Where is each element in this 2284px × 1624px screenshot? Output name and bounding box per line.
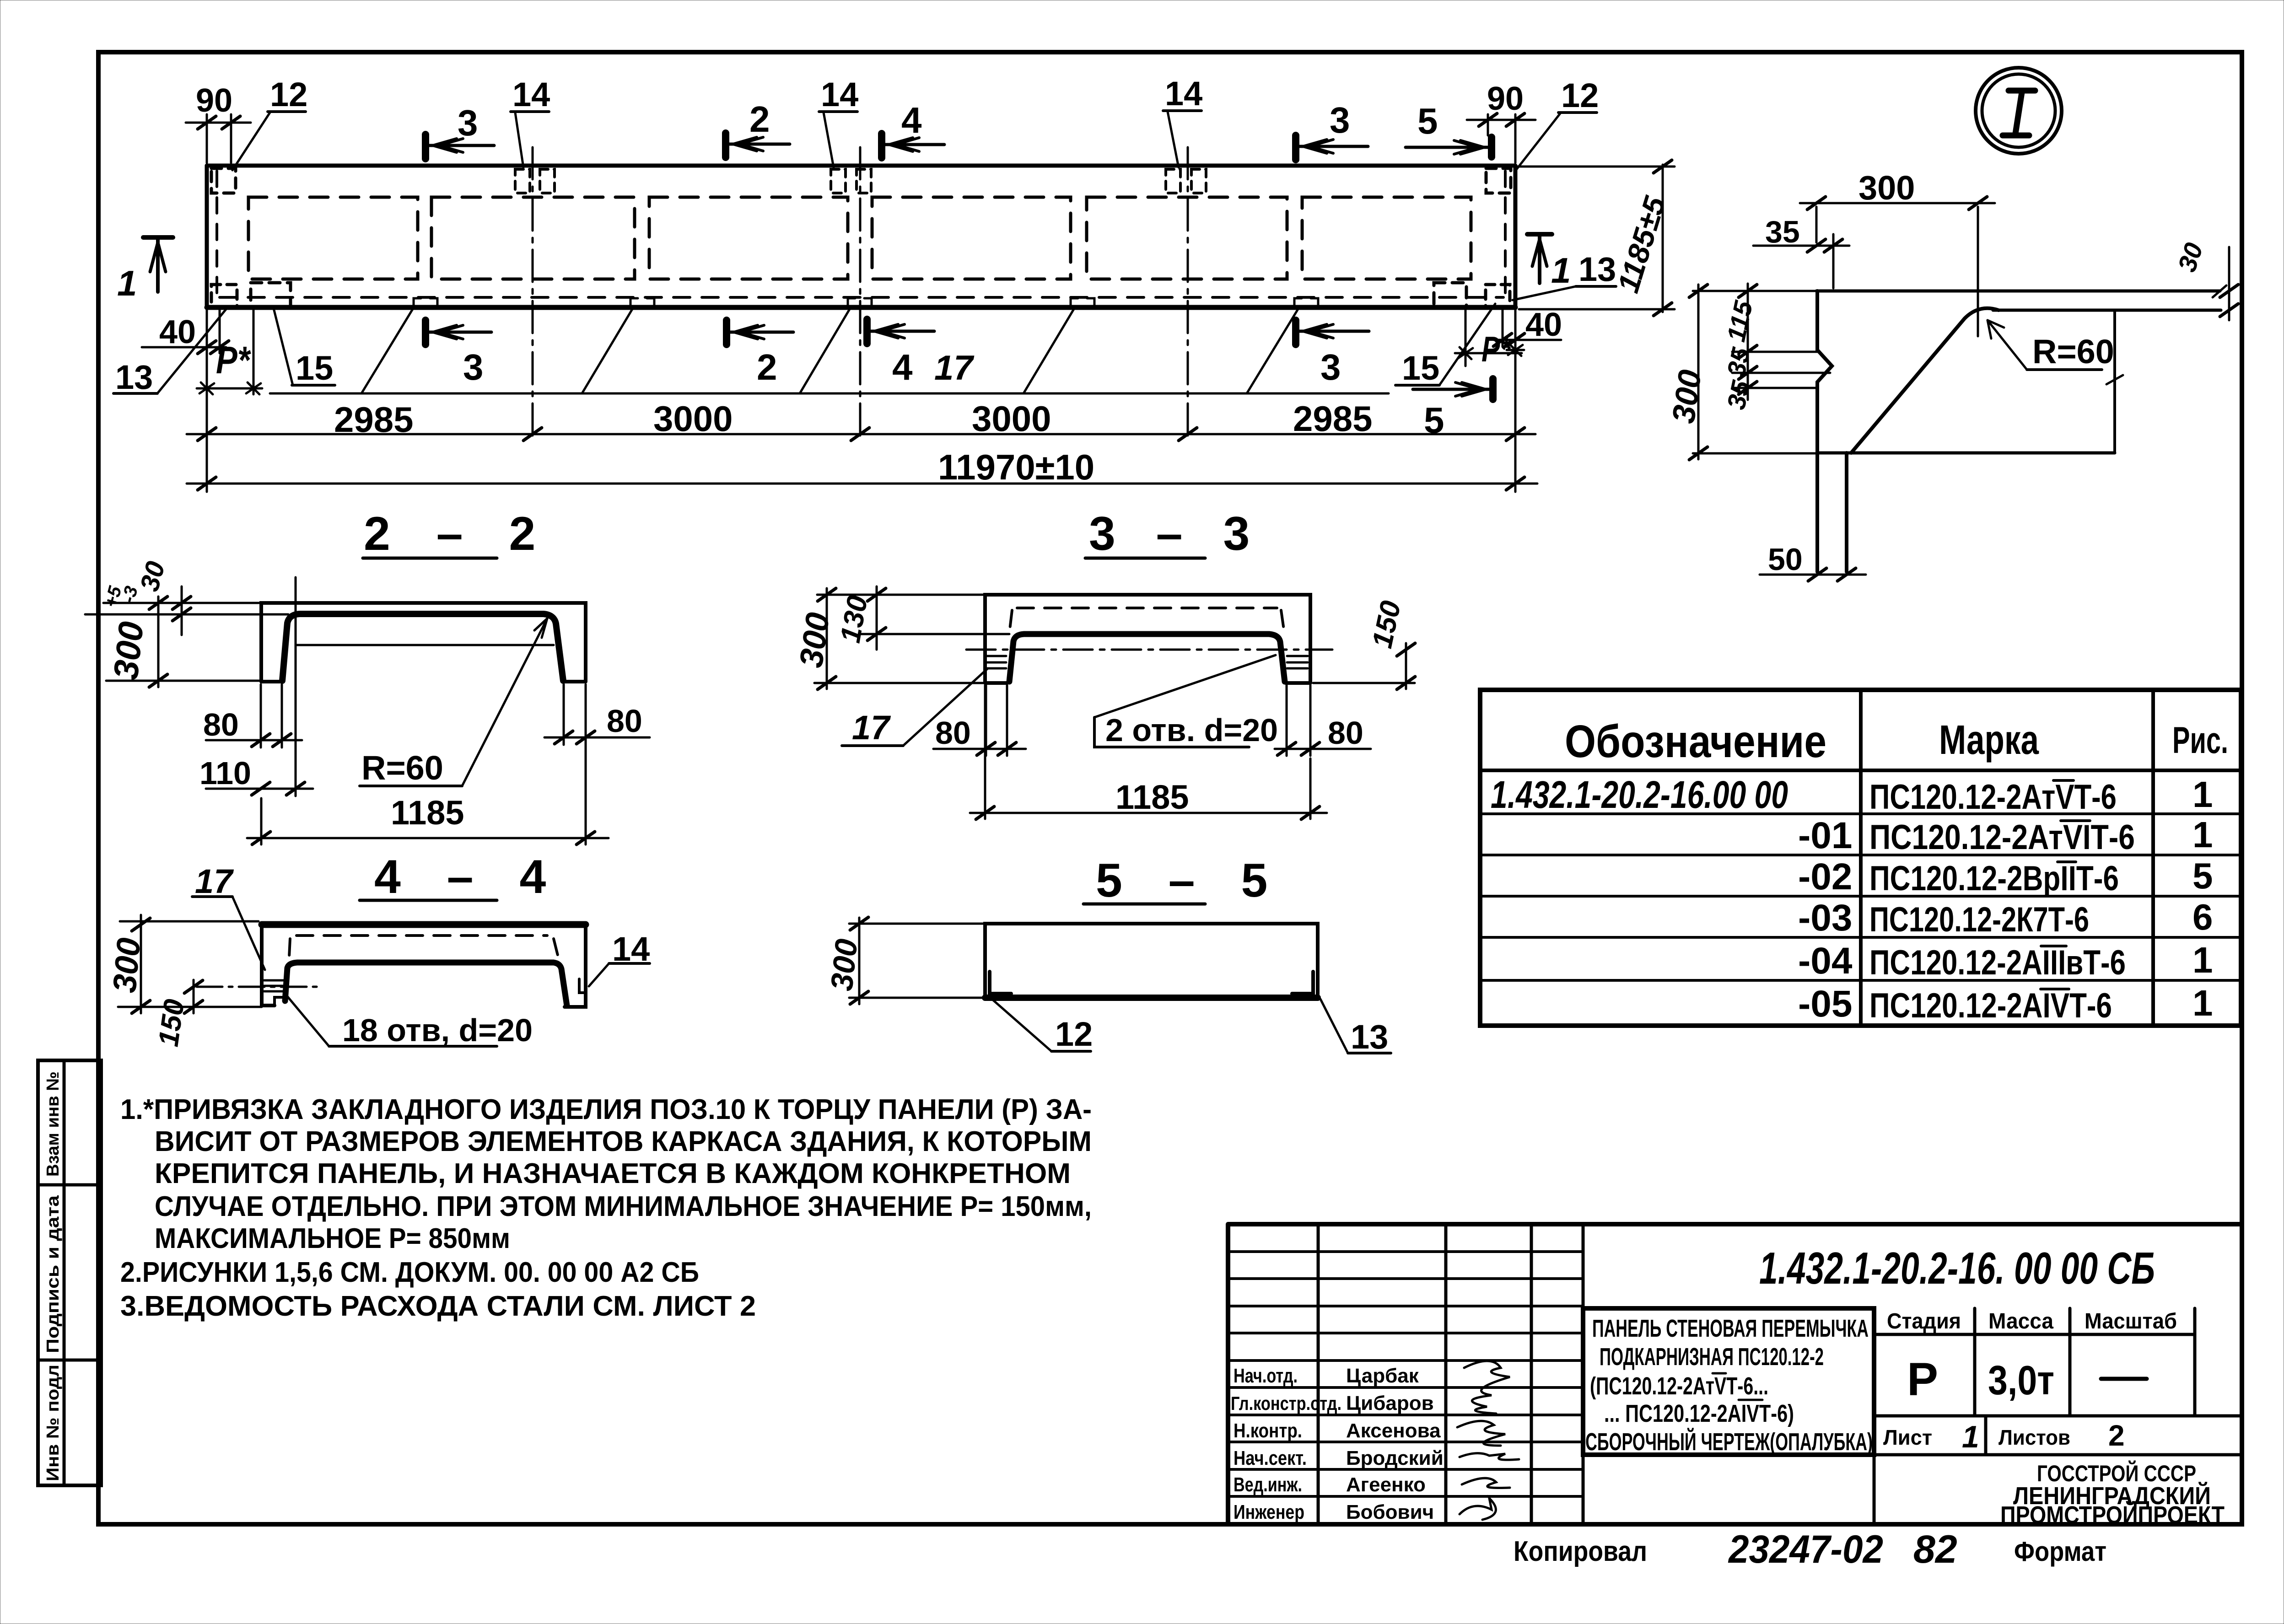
svg-text:R=60: R=60	[361, 749, 443, 787]
section 5-5 corner angle 13	[1292, 972, 1313, 994]
section 2-2 dim 80 right	[544, 684, 650, 745]
section 3-3 label 17	[842, 669, 987, 747]
panel outline right edge	[1514, 166, 1518, 307]
section 2-2 projection line	[295, 577, 297, 769]
opening 3 dashed	[649, 197, 848, 279]
embedded plate 13 bottom-right dashed square	[1486, 285, 1510, 307]
dim 40 left	[142, 309, 229, 354]
svg-text:23247-02: 23247-02	[1728, 1527, 1883, 1571]
svg-text:3: 3	[1330, 100, 1350, 140]
svg-text:80: 80	[935, 715, 971, 751]
svg-text:14: 14	[512, 75, 550, 113]
svg-text:12: 12	[1561, 76, 1599, 114]
section 5-5 corner angle 12	[990, 972, 1011, 994]
svg-text:13: 13	[1351, 1018, 1388, 1056]
detail dim 35 top	[1753, 215, 1849, 288]
title block outline	[1228, 1224, 2242, 1524]
section arrow 4 bottom	[867, 319, 934, 387]
stamp divider row 2	[38, 1359, 101, 1362]
inner dashed line left rim	[215, 171, 218, 303]
svg-text:Цибаров: Цибаров	[1346, 1392, 1434, 1414]
svg-text:Нач.сект.: Нач.сект.	[1234, 1447, 1307, 1469]
embedded plate 15 bottom-left dashed square	[251, 283, 291, 307]
value dash	[2101, 1377, 2147, 1381]
section arrow 3 bottom	[426, 320, 491, 387]
svg-text:1: 1	[1962, 1420, 1979, 1454]
section arrow 3 top right	[1296, 100, 1368, 160]
svg-text:2: 2	[2108, 1419, 2125, 1452]
view arrow 1 right	[1527, 234, 1571, 290]
section 2-2 dim 1185	[247, 684, 609, 844]
section arrow 3 top	[426, 102, 494, 159]
svg-text:80: 80	[607, 703, 642, 739]
table row lines	[1480, 814, 2241, 980]
svg-text:Стадия: Стадия	[1887, 1309, 1961, 1334]
svg-text:2985: 2985	[1293, 398, 1373, 439]
detail top surface line	[1816, 290, 2220, 293]
svg-text:ПС120.12-2АтVIТ-6: ПС120.12-2АтVIТ-6	[1869, 818, 2135, 857]
svg-text:5: 5	[2192, 855, 2213, 896]
section arrow 4 top	[882, 100, 944, 158]
svg-text:50: 50	[1768, 542, 1803, 577]
section 3-3 dim 150 right	[1313, 598, 1415, 689]
section 3-3 hole axis line	[966, 649, 1332, 651]
section 5-5 outline	[985, 924, 1318, 998]
section arrow 3 bottom right	[1296, 320, 1369, 387]
svg-text:2.РИСУНКИ 1,5,6 СМ. ДОКУМ. 00: 2.РИСУНКИ 1,5,6 СМ. ДОКУМ. 00. 00 00 А2 …	[120, 1257, 699, 1288]
label 13 left	[113, 309, 226, 396]
extension line panel right edge down	[1514, 309, 1517, 492]
svg-text:110: 110	[199, 755, 251, 791]
svg-text:2 отв. d=20: 2 отв. d=20	[1105, 712, 1278, 748]
section 4-4 label 17	[192, 862, 265, 970]
panel outline top edge	[207, 164, 1515, 168]
svg-text:(ПС120.12-2АтVТ-6...: (ПС120.12-2АтVТ-6...	[1590, 1372, 1768, 1400]
opening 5 dashed	[1087, 197, 1287, 279]
svg-text:Н.контр.: Н.контр.	[1234, 1420, 1302, 1442]
label 15 left	[274, 308, 335, 387]
svg-text:СЛУЧАЕ ОТДЕЛЬНО. ПРИ ЭТОМ МИН: СЛУЧАЕ ОТДЕЛЬНО. ПРИ ЭТОМ МИНИМАЛЬНОЕ ЗН…	[155, 1191, 1092, 1222]
table row 3 mark	[1869, 859, 2119, 898]
svg-text:5 – 5: 5 – 5	[1096, 854, 1284, 907]
svg-text:3: 3	[1320, 347, 1341, 387]
svg-text:ПРОМСТРОЙПРОЕКТ: ПРОМСТРОЙПРОЕКТ	[2000, 1501, 2225, 1529]
section 4-4 outer contour	[262, 925, 586, 1007]
stamp divider vertical	[63, 1060, 66, 1485]
svg-text:Гл.констр.отд.: Гл.констр.отд.	[1231, 1393, 1341, 1414]
left margin stamp box	[38, 1060, 101, 1485]
svg-text:300: 300	[106, 936, 147, 995]
title text line 3	[1590, 1372, 1768, 1400]
label 14 at axis 1	[511, 75, 550, 167]
svg-text:3.ВЕДОМОСТЬ РАСХОДА СТАЛИ СМ: 3.ВЕДОМОСТЬ РАСХОДА СТАЛИ СМ. ЛИСТ 2	[120, 1291, 756, 1322]
signature squiggles	[1464, 1361, 1510, 1414]
svg-text:35: 35	[1765, 215, 1800, 249]
svg-text:3000: 3000	[653, 398, 733, 439]
detail label R=60	[1988, 320, 2114, 371]
section 2-2 dim 30	[85, 558, 288, 635]
svg-text:КРЕПИТСЯ ПАНЕЛЬ, И НАЗНАЧАЕТСЯ: КРЕПИТСЯ ПАНЕЛЬ, И НАЗНАЧАЕТСЯ В КАЖДОМ …	[155, 1158, 1071, 1189]
module dimension line	[187, 398, 1535, 441]
section 2-2 dim 80 left	[203, 684, 302, 747]
section 4-4 inner thick profile	[285, 963, 567, 1006]
svg-text:130: 130	[835, 593, 874, 645]
opening 1 dashed	[248, 197, 418, 279]
label 14 at axis 2	[819, 75, 858, 167]
label 12 left	[232, 75, 307, 170]
view arrow 1 left	[117, 237, 173, 303]
svg-text:115: 115	[1721, 298, 1758, 344]
section 4-4 label 18 отв d=20	[285, 994, 533, 1048]
svg-text:5: 5	[1417, 101, 1438, 141]
svg-text:12: 12	[1055, 1015, 1093, 1053]
svg-text:-03: -03	[1798, 897, 1853, 939]
welded plates 17 on bottom edge	[414, 298, 1318, 306]
svg-text:Подпись и дата: Подпись и дата	[43, 1195, 63, 1353]
label 14 at axis 3	[1163, 75, 1202, 167]
section 3-3 embedded channel left	[987, 656, 1006, 668]
overall dimension 11970±10	[187, 447, 1537, 490]
svg-text:1: 1	[2192, 940, 2213, 980]
section 4-4 top slab thick line	[262, 921, 586, 928]
svg-text:2: 2	[749, 99, 770, 140]
section arrow 2 bottom	[727, 320, 793, 387]
svg-text:СБОРОЧНЫЙ ЧЕРТЕЖ(ОПАЛУБКА): СБОРОЧНЫЙ ЧЕРТЕЖ(ОПАЛУБКА)	[1585, 1428, 1873, 1456]
opening 2 dashed	[431, 197, 635, 279]
leader line for plates 17	[270, 308, 1389, 393]
section 3-3 label 2 отв d=20	[1094, 655, 1278, 748]
svg-text:Копировал: Копировал	[1514, 1536, 1647, 1567]
svg-text:300: 300	[793, 610, 837, 670]
svg-text:4: 4	[892, 347, 913, 387]
detail bottom tongue 50	[1817, 453, 1847, 572]
detail bottom line	[1817, 452, 2115, 455]
detail cornice ledge line	[1993, 309, 2221, 312]
opening 4 dashed	[872, 197, 1071, 279]
section 3-3 inner thick profile	[1009, 634, 1285, 682]
section title 3-3	[1085, 507, 1263, 560]
svg-text:1.*ПРИВЯЗКА ЗАКЛАДНОГО ИЗДЕЛИ: 1.*ПРИВЯЗКА ЗАКЛАДНОГО ИЗДЕЛИЯ ПОЗ.10 К …	[120, 1094, 1092, 1125]
svg-text:300: 300	[106, 620, 151, 682]
svg-text:1: 1	[2192, 814, 2213, 855]
section 3-3 dim 300 left	[793, 588, 985, 689]
section 4-4 hole axis line	[197, 986, 318, 988]
table header line	[1480, 769, 2241, 772]
svg-text:Формат: Формат	[2014, 1536, 2106, 1567]
section title 2-2	[363, 507, 552, 560]
svg-text:Нач.отд.: Нач.отд.	[1234, 1365, 1298, 1387]
extension line panel left edge down	[206, 309, 208, 492]
dim 90 top-left	[186, 82, 251, 163]
section 2-2 inner thin line	[296, 644, 554, 646]
svg-text:14: 14	[821, 75, 858, 113]
svg-text:1: 1	[2192, 774, 2213, 815]
svg-text:-02: -02	[1798, 856, 1853, 898]
label 15 right	[1395, 304, 1495, 387]
detail diagonal with R60 corner	[1851, 308, 1998, 453]
svg-text:13: 13	[115, 358, 153, 396]
dim Р* left	[197, 309, 262, 394]
svg-text:300: 300	[1665, 368, 1708, 426]
section title 4-4	[360, 850, 562, 903]
svg-text:1: 1	[1551, 250, 1571, 290]
stamp divider row 1	[38, 1183, 101, 1187]
label 12 right	[1514, 76, 1599, 172]
svg-text:15: 15	[1402, 349, 1439, 387]
svg-text:4: 4	[901, 100, 922, 140]
svg-text:17: 17	[934, 349, 975, 387]
svg-text:ПС120.12-2АIIIвТ-6: ПС120.12-2АIIIвТ-6	[1869, 943, 2126, 982]
title text line 4	[1604, 1400, 1794, 1427]
opening 6 dashed	[1302, 197, 1471, 279]
inner dashed line right rim	[1504, 171, 1507, 303]
svg-text:ПС120.12-2АтVТ-6: ПС120.12-2АтVТ-6	[1869, 778, 2117, 817]
svg-text:300: 300	[824, 937, 864, 993]
section 5-5 bottom thick line	[985, 995, 1318, 1001]
svg-text:ПС120.12-2АIVТ-6: ПС120.12-2АIVТ-6	[1869, 986, 2112, 1025]
svg-text:1: 1	[117, 263, 137, 303]
detail dim 50 bottom	[1760, 542, 1866, 581]
section 4-4 notch plate 14 right leg	[579, 979, 586, 993]
section 3-3 dim 80 left	[933, 685, 1026, 756]
svg-text:90: 90	[196, 82, 232, 119]
table row 5 mark	[1869, 943, 2126, 982]
section arrow 5 top	[1406, 101, 1492, 157]
svg-text:150: 150	[1366, 598, 1407, 651]
section 2-2 outer contour	[261, 603, 586, 682]
svg-text:40: 40	[1525, 307, 1562, 343]
svg-text:Бобович: Бобович	[1346, 1501, 1434, 1523]
svg-text:82: 82	[1913, 1527, 1957, 1571]
svg-text:3: 3	[463, 347, 484, 387]
title block signature rows	[1228, 1252, 1583, 1496]
detail left edge with notch	[1817, 291, 1832, 453]
right header dividers	[1583, 1308, 2242, 1524]
dim 40 right	[1493, 307, 1562, 347]
section 3-3 embedded channel right	[1287, 656, 1308, 668]
svg-text:1185: 1185	[1115, 778, 1189, 816]
svg-text:30: 30	[2172, 239, 2208, 275]
svg-text:Инженер: Инженер	[1234, 1501, 1304, 1523]
module axis line 3	[1187, 147, 1189, 441]
table column line 2	[2151, 690, 2155, 1026]
svg-text:6: 6	[2192, 897, 2213, 937]
embedded plates 14 pair at axis 2	[831, 169, 846, 193]
section 3-3 dim 1185	[970, 685, 1327, 819]
embedded plates 14 pair at axis 3	[1166, 169, 1180, 193]
svg-text:3: 3	[458, 102, 478, 143]
section 2-2 dim 110 left	[199, 755, 313, 796]
svg-text:80: 80	[203, 707, 239, 742]
section 2-2 inner thick profile	[282, 614, 563, 681]
svg-text:Масштаб: Масштаб	[2085, 1309, 2177, 1334]
svg-text:-01: -01	[1798, 815, 1853, 856]
section 3-3 dim 130	[835, 586, 1009, 650]
table column line 1	[1859, 690, 1863, 1026]
dim 1185±5 right side	[1517, 160, 1675, 316]
embedded plate 13 bottom-left dashed square	[211, 285, 237, 307]
svg-text:Марка: Марка	[1939, 717, 2039, 763]
svg-text:11970±10: 11970±10	[938, 447, 1094, 487]
section arrow 2 top	[726, 99, 790, 157]
embedded plate 12 top-left dashed square	[211, 168, 236, 193]
svg-text:12: 12	[270, 75, 307, 113]
svg-text:3 – 3: 3 – 3	[1089, 507, 1263, 560]
module axis line 2	[859, 147, 862, 441]
svg-text:R=60: R=60	[2032, 333, 2114, 371]
embedded plate 12 top-right dashed square	[1486, 168, 1511, 193]
svg-text:1.432.1-20.2-16. 00 00 СБ: 1.432.1-20.2-16. 00 00 СБ	[1759, 1243, 2155, 1293]
svg-text:Рис.: Рис.	[2172, 720, 2228, 761]
section arrow 5 bottom	[1413, 379, 1493, 441]
detail dims 115 35 35 left	[1721, 284, 1830, 412]
svg-text:-05: -05	[1798, 983, 1853, 1025]
svg-text:300: 300	[1858, 169, 1915, 207]
svg-text:4 – 4: 4 – 4	[374, 850, 562, 903]
marks table frame	[1480, 690, 2241, 1026]
title block signature columns	[1318, 1224, 1583, 1524]
detail dim 300 top	[1800, 169, 1995, 336]
table row 6 mark	[1869, 986, 2112, 1025]
svg-text:17: 17	[852, 709, 891, 747]
section 4-4 dim 300 left	[106, 915, 262, 1013]
dim 90 top-right	[1467, 81, 1535, 163]
svg-text:Инв № подл: Инв № подл	[43, 1365, 63, 1481]
svg-text:Р*: Р*	[216, 339, 251, 382]
section 4-4 dim 150 left	[153, 980, 203, 1049]
table row 2 mark	[1869, 818, 2135, 857]
embedded plates 14 pair at axis 1	[515, 169, 530, 193]
svg-text:2985: 2985	[334, 399, 414, 440]
svg-text:40: 40	[159, 314, 196, 350]
svg-text:1.432.1-20.2-16.00 00: 1.432.1-20.2-16.00 00	[1491, 773, 1788, 816]
section title 5-5	[1083, 854, 1284, 907]
svg-text:Агеенко: Агеенко	[1346, 1473, 1426, 1496]
svg-text:150: 150	[153, 997, 191, 1049]
svg-text:ПС120.12-2К7Т-6: ПС120.12-2К7Т-6	[1869, 900, 2089, 939]
svg-text:1: 1	[2192, 983, 2213, 1023]
section 5-5 label 13	[1320, 999, 1391, 1056]
svg-text:3,0т: 3,0т	[1988, 1358, 2054, 1404]
section 2-2 label R=60	[360, 618, 547, 787]
svg-text:ПС120.12-2ВрIIТ-6: ПС120.12-2ВрIIТ-6	[1869, 859, 2119, 898]
detail dim 300 left	[1665, 285, 1816, 460]
svg-text:ПАНЕЛЬ СТЕНОВАЯ ПЕРЕМЫЧКА: ПАНЕЛЬ СТЕНОВАЯ ПЕРЕМЫЧКА	[1592, 1315, 1869, 1342]
svg-text:90: 90	[1487, 81, 1524, 117]
svg-text:Листов: Листов	[1998, 1425, 2070, 1449]
svg-text:18 отв, d=20: 18 отв, d=20	[342, 1012, 533, 1048]
section 3-3 dim 80 right	[1275, 685, 1371, 756]
section 4-4 embedded channel 17 in left leg	[264, 980, 287, 1006]
svg-text:1185: 1185	[391, 794, 464, 832]
module axis line 1	[532, 147, 534, 441]
section 3-3 outer contour	[985, 595, 1310, 683]
section 4-4 label 14	[589, 930, 650, 986]
section 4-4 hidden recess dashed	[289, 936, 558, 957]
svg-text:ПОДКАРНИЗНАЯ ПС120.12-2: ПОДКАРНИЗНАЯ ПС120.12-2	[1600, 1343, 1824, 1371]
detail mark circle I	[1976, 68, 2062, 154]
svg-text:-04: -04	[1798, 940, 1853, 982]
section 3-3 hidden recess dashed	[1010, 608, 1284, 629]
title cell border	[1583, 1308, 1874, 1455]
svg-text:Бродский: Бродский	[1346, 1447, 1444, 1469]
panel outline bottom edge	[207, 305, 1515, 310]
svg-text:Аксенова: Аксенова	[1346, 1420, 1441, 1442]
dim Р* right	[1455, 309, 1524, 369]
svg-text:13: 13	[1578, 250, 1616, 288]
label 13 right	[1513, 250, 1616, 300]
svg-text:Масса: Масса	[1988, 1309, 2053, 1334]
svg-text:80: 80	[1328, 715, 1363, 751]
svg-text:Обозначение: Обозначение	[1565, 716, 1826, 767]
svg-text:2: 2	[757, 347, 777, 387]
svg-text:ВИСИТ ОТ РАЗМЕРОВ ЭЛЕМЕНТОВ КА: ВИСИТ ОТ РАЗМЕРОВ ЭЛЕМЕНТОВ КАРКАСА ЗДАН…	[155, 1126, 1092, 1157]
svg-text:3000: 3000	[972, 398, 1051, 439]
svg-text:Лист: Лист	[1883, 1425, 1932, 1449]
svg-text:17: 17	[195, 862, 234, 900]
svg-text:Взам инв №: Взам инв №	[43, 1071, 63, 1177]
section 5-5 dim 300	[824, 917, 985, 1004]
svg-text:14: 14	[1165, 75, 1202, 113]
svg-text:Р*: Р*	[1481, 329, 1512, 369]
detail right break edge	[2106, 310, 2123, 453]
section 5-5 label 12	[992, 999, 1093, 1053]
svg-text:15: 15	[296, 349, 333, 387]
svg-text:Царбак: Царбак	[1346, 1365, 1419, 1387]
embedded plate 15 bottom-right dashed square	[1434, 283, 1466, 307]
svg-text:... ПС120.12-2АIVТ-6): ... ПС120.12-2АIVТ-6)	[1604, 1400, 1794, 1427]
svg-text:Р: Р	[1907, 1353, 1938, 1405]
section 2-2 dim 300+5-3	[101, 584, 261, 687]
svg-text:35: 35	[1721, 378, 1756, 412]
svg-text:МАКСИМАЛЬНОЕ Р= 850мм: МАКСИМАЛЬНОЕ Р= 850мм	[155, 1223, 510, 1254]
svg-text:2 – 2: 2 – 2	[364, 507, 552, 560]
inner dashed line bottom rim	[220, 296, 1503, 299]
panel outline left edge	[205, 166, 209, 307]
table row 1 mark	[1869, 778, 2117, 817]
svg-text:Вед.инж.: Вед.инж.	[1234, 1473, 1302, 1496]
detail dim 30 right	[2172, 239, 2238, 320]
